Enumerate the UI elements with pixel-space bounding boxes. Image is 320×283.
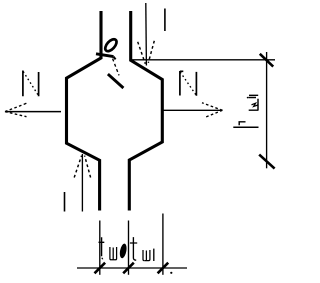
label t_sh right : sh [143,250,150,261]
bottom extension line middle [128,221,130,275]
h dimension vertical line [266,52,268,168]
letter N left [23,71,39,97]
ink blob [119,243,128,259]
label t_sh left : sh [110,247,117,260]
stray speck [170,272,172,274]
annotation thick tick [108,74,124,88]
label iota [153,249,155,261]
label h_sh rotated : h glyph [233,126,258,128]
tick bottom right [259,155,274,169]
label t_sh left : t [99,237,105,256]
right arrowhead barbs (dashed) [202,103,223,118]
sigma oval annotation [103,37,118,53]
annotation arrow stroke [96,54,114,57]
label t_sh right : t [130,237,137,260]
left arrowhead barbs (dashed) [5,103,28,117]
label I bottom [64,192,66,212]
left plate outline (upper edge, bevel, side, bevel, lower edge) [67,11,102,211]
letter N right [180,71,197,96]
right plate outline [129,11,162,211]
tick top right [260,54,273,67]
top dashed V arrowhead [138,41,155,64]
weld seam leader top (vertical) [145,3,148,66]
weld seam leader bottom (vertical) [81,154,83,212]
bottom dimension line [77,267,187,269]
h dimension horizontal line [132,59,275,61]
right force arrow shaft [163,109,223,111]
bottom extension line right [162,214,164,275]
left force arrow shaft [5,111,61,113]
label h_sh rotated : sh glyph [249,95,259,110]
label I top [164,9,166,32]
annotation dashed leader [113,59,119,76]
bottom extension line left [99,221,101,275]
bottom dashed V arrowhead [74,156,90,178]
bottom ticks [95,263,169,274]
